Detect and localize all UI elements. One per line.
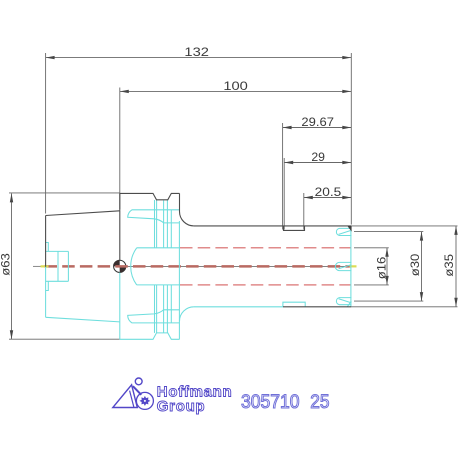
body top edge [194, 225, 351, 227]
svg-text:25: 25 [310, 392, 329, 413]
tip slit middle [335, 262, 351, 270]
extension line for 29 [283, 158, 285, 230]
flange groove vertical e bottom [170, 285, 172, 323]
bore bottom line cyan part [137, 284, 180, 286]
flange groove vertical a bottom [154, 285, 156, 333]
tip slit middle diagonal [339, 265, 352, 269]
svg-text:29: 29 [311, 152, 325, 164]
svg-text:305710: 305710 [241, 392, 300, 413]
centerline red dashed [45, 265, 351, 268]
logo inner leg line [130, 391, 134, 408]
dimension dia16 line [385, 248, 388, 285]
bore rounded end arc [131, 248, 137, 285]
taper internal vertical 2 [67, 251, 69, 281]
flange groove vertical c top [163, 201, 165, 248]
flange groove vertical b bottom [156, 285, 158, 333]
Hoffmann Group logo mark triangle [113, 378, 142, 408]
bottom tip chamfer [347, 301, 351, 307]
extension line gauge plane for 100 [119, 88, 121, 210]
flange groove vertical d top [166, 200, 168, 248]
top tip chamfer [347, 226, 351, 232]
logo person body [133, 386, 141, 395]
svg-text:20.5: 20.5 [315, 187, 342, 199]
datum symbol at gauge point [114, 260, 126, 272]
logo gear outer circle [136, 392, 153, 409]
extension lines for dia30 [354, 231, 423, 233]
svg-text:ø63: ø63 [0, 253, 12, 276]
flange internal cone lower (mirror) [128, 310, 180, 323]
flange face upper (gauge plane to datum) [119, 211, 121, 261]
extension line flange bottom for dia63 [9, 338, 120, 340]
tip slit top diagonal [339, 230, 352, 234]
svg-text:ø16: ø16 [376, 257, 388, 280]
flange groove vertical e top [170, 210, 172, 248]
taper internal step bottom [46, 281, 49, 290]
centerline yellow dash left [41, 265, 49, 267]
flange groove vertical d bottom [166, 285, 168, 333]
flange-to-body top fillet [180, 212, 194, 226]
taper internal bore bottom line [46, 280, 69, 282]
taper face lower half [45, 267, 47, 318]
tip slit bottom diagonal [339, 299, 352, 303]
extension line left (taper face) for 132 [45, 53, 47, 214]
thin centerline solid [120, 265, 351, 267]
taper bottom edge [46, 317, 120, 322]
taper internal bore top line [46, 250, 69, 252]
body bottom edge cyan part [194, 306, 283, 308]
top notch on body [284, 226, 305, 231]
dimension dia63 line [10, 193, 13, 339]
dimension 132 line [46, 56, 352, 59]
centerline yellow dash right [350, 265, 357, 267]
flange internal cone upper [128, 210, 180, 223]
dimension 29 line [284, 161, 351, 164]
tip slit top [336, 228, 351, 235]
svg-text:29.67: 29.67 [301, 117, 334, 129]
bottom notch on body [283, 302, 305, 307]
dimension dia30 line [420, 232, 423, 302]
extension line flange top for dia63 [9, 192, 120, 194]
flange right edge [179, 193, 181, 211]
extension lines for dia16 [354, 247, 389, 249]
flange bottom edge with V-notch [120, 333, 180, 339]
flange back face cyan [178, 221, 180, 339]
taper face upper half [45, 216, 47, 267]
dimension 29.67 line [283, 126, 352, 129]
bore top line cyan part [137, 247, 180, 249]
extension line for 29.67 [282, 123, 284, 230]
bore hidden line top (red dashed) [180, 247, 351, 249]
flange top edge with V-notch [120, 193, 180, 199]
extension line right (tip face) for dims [350, 53, 352, 225]
taper top edge [46, 211, 120, 216]
centerline overshoot left [33, 265, 46, 267]
svg-text:132: 132 [184, 47, 209, 59]
body bottom edge dark part [283, 306, 351, 308]
svg-text:Group: Group [157, 398, 206, 415]
taper internal step top [46, 243, 49, 252]
svg-text:100: 100 [223, 81, 248, 93]
flange groove vertical a top [154, 200, 156, 248]
logo head circle [135, 378, 142, 385]
logo gear center hole [144, 400, 146, 402]
body bottom edge thin extension to dia35 [351, 306, 457, 308]
dimension dia35 line [454, 226, 457, 307]
svg-text:ø30: ø30 [410, 254, 422, 277]
body top edge thin extension to dia35 [351, 225, 457, 227]
extension line for 20.5 [303, 193, 305, 230]
flange groove vertical b top [156, 200, 158, 248]
flange-to-body bottom fillet [180, 307, 194, 321]
flange groove vertical c bottom [163, 285, 165, 333]
flange face lower half [119, 273, 121, 340]
dimension 100 line [120, 90, 351, 93]
tip slit bottom [336, 298, 351, 305]
tip face [350, 226, 352, 307]
logo gear star [139, 396, 150, 406]
taper internal vertical 1 [57, 251, 59, 281]
flange face vertical at gauge plane upper [119, 193, 121, 210]
svg-text:ø35: ø35 [444, 254, 456, 277]
bore hidden line bottom (red dashed) [180, 284, 351, 286]
dimension 20.5 line [304, 196, 352, 199]
